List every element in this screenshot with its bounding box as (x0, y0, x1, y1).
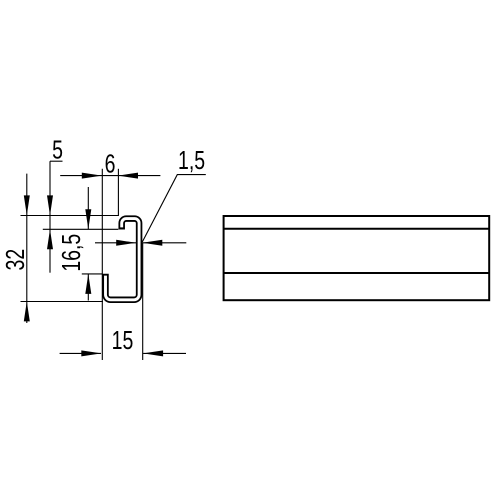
svg-text:16,5: 16,5 (56, 234, 85, 272)
svg-text:1,5: 1,5 (178, 145, 205, 174)
svg-text:6: 6 (105, 149, 116, 178)
svg-text:5: 5 (52, 135, 63, 164)
svg-text:32: 32 (0, 249, 29, 271)
svg-text:15: 15 (112, 325, 134, 354)
